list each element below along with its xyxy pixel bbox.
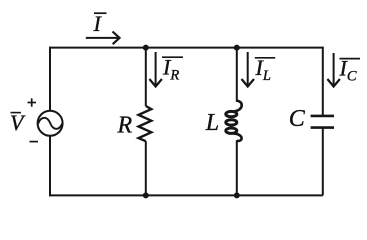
node dot top R xyxy=(143,45,149,51)
current IR overbar xyxy=(162,56,183,58)
svg-text:IL: IL xyxy=(255,55,271,84)
node dot bottom L xyxy=(234,192,240,198)
svg-text:V: V xyxy=(10,110,26,135)
current IC overbar xyxy=(340,58,361,60)
inductor L branch wire bottom xyxy=(236,140,238,195)
wire right bottom xyxy=(322,129,324,196)
svg-text:L: L xyxy=(205,110,219,136)
resistor R branch wire top xyxy=(145,48,147,106)
wire left top xyxy=(49,47,51,111)
capacitor C plate bottom xyxy=(311,126,334,129)
node dot top L xyxy=(234,45,240,51)
inductor L coil ring 3 xyxy=(226,128,237,133)
wire bottom xyxy=(50,194,323,196)
svg-text:R: R xyxy=(117,113,133,139)
wire top xyxy=(50,47,323,49)
svg-text:IR: IR xyxy=(162,55,179,84)
current I overbar xyxy=(94,12,107,14)
minus sign xyxy=(30,141,39,143)
wire left bottom xyxy=(49,136,51,196)
inductor L coil entry xyxy=(234,101,242,112)
current I arrow top xyxy=(86,32,120,45)
inductor L coil exit xyxy=(234,134,242,141)
current IC arrow xyxy=(327,53,340,87)
svg-text:C: C xyxy=(289,106,306,132)
wire right top xyxy=(322,47,324,115)
capacitor C plate top xyxy=(311,115,334,118)
plus sign xyxy=(28,98,37,106)
svg-text:I: I xyxy=(93,11,103,36)
inductor L coil ring 1 xyxy=(226,111,237,116)
resistor R branch wire bottom xyxy=(145,141,147,195)
source sine xyxy=(38,118,62,129)
source U1 circle xyxy=(38,111,63,136)
current IL arrow xyxy=(242,52,255,87)
current IR arrow xyxy=(149,52,162,87)
inductor L branch wire top xyxy=(236,48,238,102)
inductor L coil ring 2 xyxy=(226,120,237,125)
node dot bottom R xyxy=(143,192,149,198)
resistor R zigzag xyxy=(139,106,152,141)
label V overbar xyxy=(11,112,22,114)
svg-text:IC: IC xyxy=(339,56,357,85)
current IL overbar xyxy=(255,57,275,59)
